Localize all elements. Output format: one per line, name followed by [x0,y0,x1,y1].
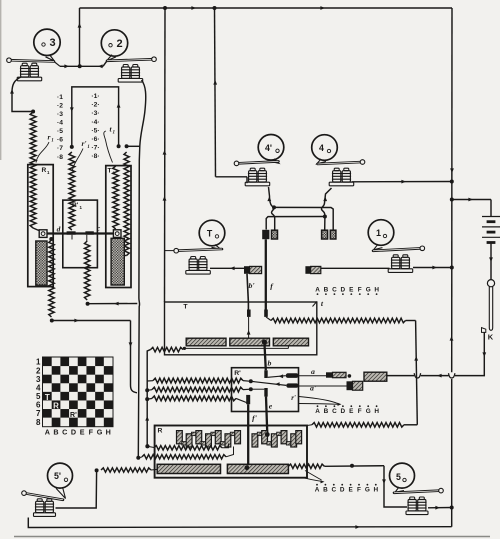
wire node B down [324,217,326,230]
node e tap [249,387,264,391]
svg-text:·3: ·3 [57,111,63,118]
wire to bell5R [382,466,407,507]
contact bar a-prime inner [286,383,298,387]
bell 1 clapper tail [374,244,383,250]
resistor to rail [151,347,184,352]
wire a-prime out [299,385,347,387]
label t1 [104,124,115,162]
label d [57,225,61,234]
labels row1 A-H [315,287,379,296]
svg-text:r': r' [291,395,296,402]
node R1 tap [31,110,35,114]
wire top bus [80,6,453,10]
wire bell1 to battery line [413,266,452,270]
resistor R1 zigzag [30,112,40,231]
svg-text:4': 4' [265,143,272,153]
svg-text:B: B [53,428,58,437]
wire coil2 down [138,80,145,458]
wire battery to switch [489,243,493,280]
wire 4 coil to battery line [352,180,452,184]
node B [323,215,327,219]
armature 5 [394,488,443,493]
svg-text:5: 5 [396,472,401,482]
svg-text:·8·: ·8· [91,153,99,160]
bell 5 clapper tail [395,487,404,492]
resistor R1-prime zigzag [69,152,75,230]
callout row3 [302,471,325,484]
contact bar f [305,266,320,274]
contact sq dark [262,230,269,239]
svg-text:·7: ·7 [57,145,63,152]
box R1-prime [63,200,98,268]
svg-text:R: R [53,402,59,411]
contact b R-prime [264,370,267,378]
label c [97,224,101,233]
callout r-prime [291,395,341,406]
box R [155,426,307,478]
svg-text:E: E [349,287,354,294]
svg-text:G: G [97,428,103,437]
svg-text:·1·: ·1· [91,93,99,100]
box T1 [106,166,131,288]
wire bell junction link [54,61,107,69]
bell 2 [101,30,127,56]
resistor long row2 [307,423,417,428]
svg-text:3: 3 [49,37,55,49]
chessboard label R [53,402,59,411]
wire battery feed [452,198,491,216]
svg-text:b: b [268,359,272,368]
resistor T1b zigzag [121,152,129,256]
svg-text:C: C [332,408,337,415]
bell 3 clapper tail [46,55,55,62]
bell 5-prime [48,463,73,488]
pivot square left [39,230,47,238]
labels row2 A-H [315,405,379,415]
box T [165,302,317,355]
bell 5-prime clapper tail [56,487,66,499]
box R-prime [232,368,299,412]
contact bar a-prime outer [347,381,363,390]
box R1 [28,165,53,287]
bell 4 [312,135,338,161]
resistor d-column zigzag [49,237,54,323]
svg-text:b': b' [248,281,255,290]
label b-prime [248,281,255,290]
svg-text:R': R' [234,370,241,377]
svg-text:8: 8 [36,418,41,427]
scale numbers 1-8 left [57,94,63,161]
coil L1 [388,255,413,273]
resistor row1 [147,378,251,383]
svg-text:G: G [365,487,370,494]
resistor comb feed 2 [136,447,233,460]
node b slider [262,339,267,344]
slider bar R1s [157,464,220,473]
wire T0 pivot link [165,250,175,252]
coil L3 [17,63,42,81]
svg-text:B: B [324,287,329,294]
coil L5 [406,497,428,515]
bell T0 [199,220,225,246]
wire 4-prime coil down [267,187,274,207]
switch arm a-prime [251,381,286,386]
armature 4 [318,160,365,165]
contact c [85,231,93,234]
contact sq 4 [330,230,336,239]
contact f inner [264,310,268,317]
svg-text:F: F [89,428,94,437]
contact bar b-prime [244,266,262,274]
svg-text:1: 1 [51,139,54,144]
svg-text:2: 2 [116,38,122,50]
wire 5 out [428,506,452,510]
label f [270,282,274,291]
resistor comb feed [145,444,228,451]
contact bar d-c [42,232,121,234]
svg-text:C: C [331,487,336,494]
rheostat comb R [177,431,302,447]
node battery taps [450,180,454,510]
coil L4-prime [245,168,270,186]
svg-text:F: F [358,287,362,294]
node v3 taps [145,388,149,448]
slider bar T1s [186,338,226,346]
label K [488,333,494,342]
wire v3 [145,350,150,447]
bell 4-prime clapper tail [270,159,279,164]
page edge bottom [14,536,490,538]
labels row3 A-H [315,484,379,494]
armature bell 3 [7,58,54,63]
svg-text:D: D [71,428,76,437]
svg-text:1: 1 [87,145,90,150]
svg-text:G: G [366,287,371,294]
label f-prime [252,414,258,423]
svg-text:D: D [340,487,345,494]
node f-prime slider [245,465,250,470]
wire scale loop [70,87,121,149]
svg-text:T: T [108,168,112,175]
svg-text:C: C [332,287,337,294]
wire f heavy [265,239,267,309]
svg-text:·2: ·2 [57,102,63,109]
bell 3 [34,29,60,55]
node e comb [265,432,270,437]
svg-text:f': f' [252,414,258,423]
wire vertical to relay 4-prime [213,8,247,183]
svg-text:·5·: ·5· [91,127,99,134]
resistor bell5R link [288,464,384,469]
svg-text:R': R' [70,412,77,419]
node A [272,205,276,209]
svg-text:F: F [358,408,362,415]
coil L5-prime [34,499,56,517]
svg-text:E: E [349,408,354,415]
wire b-prime down [247,274,248,310]
resistor row2 [147,387,251,392]
svg-text:H: H [106,428,111,437]
armature 5-prime [22,491,63,500]
wire T0 to b-prime bar [210,266,244,270]
label e [269,402,273,411]
bell 5 [390,463,415,488]
svg-text:r': r' [81,139,86,148]
svg-text:A: A [315,408,320,415]
contact bar a2 outer [364,372,387,381]
bell 2 clapper tail [107,55,117,61]
switch K [482,280,495,333]
chessboard column letters [45,428,111,437]
svg-text:T: T [45,393,50,402]
svg-text:A: A [315,487,320,494]
wire node B left [266,217,325,230]
contact bar a inner [286,373,299,378]
chessboard row numbers [36,358,41,427]
svg-text:·7·: ·7· [91,145,99,152]
slider bar T3s [273,338,308,346]
wire a out [299,375,327,377]
plunger T1 [111,238,124,285]
contact d [67,231,76,239]
wire b heavy [264,342,265,370]
svg-text:·6·: ·6· [91,136,99,143]
svg-text:B: B [323,487,328,494]
armature bell 2 [107,57,156,62]
svg-text:e: e [269,402,273,411]
chessboard label T [45,393,50,402]
svg-text:R: R [42,167,47,174]
wire e heavy [266,397,267,435]
coil L4 [329,168,354,186]
wire coil3 to R1 [10,77,33,112]
label a-prime [310,384,317,393]
svg-text:H: H [374,287,379,294]
wire node A to right square [274,207,333,229]
contact bar a outer [326,372,351,377]
svg-text:B: B [324,408,329,415]
svg-text:5': 5' [54,471,61,481]
wire main right vertical [450,8,454,527]
svg-text:H: H [373,487,378,494]
svg-text:H: H [374,408,379,415]
wire f-bar to bell 1 [321,267,390,269]
pivot square right [113,230,121,238]
slider bar T2s [230,338,270,346]
contact e [264,388,267,397]
plunger R1 [36,241,47,285]
svg-text:A: A [45,428,50,437]
svg-text:·5: ·5 [57,128,63,135]
wire f-prime heavy [247,404,249,466]
svg-text:1: 1 [113,130,116,135]
chessboard label R-prime [70,412,77,419]
svg-text:D: D [341,408,346,415]
contact sq 3 [322,230,328,239]
svg-text:E: E [348,487,353,494]
wire K to arm a [387,333,486,379]
wire bottom bus [28,518,451,529]
svg-text:A: A [315,287,320,294]
resistor T zigzag [266,317,416,323]
wire b-prime to slider [247,317,251,338]
node top-left junction [163,6,217,10]
svg-text:d: d [57,225,61,234]
svg-text:1: 1 [376,228,381,238]
bell T0 clapper tail [212,245,221,250]
armature T0 [174,248,222,253]
armature bell 1 [373,246,425,251]
svg-text:·3·: ·3· [91,110,99,117]
resistor bell5L link [95,468,158,473]
coil L2 [118,65,143,83]
svg-text:G: G [366,408,371,415]
wire vertical to box T [163,8,167,302]
wire 5-prime riser [56,470,97,508]
svg-text:·1: ·1 [57,94,63,101]
node T1 taps [125,144,140,148]
resistor c-column zigzag [85,235,90,306]
resistor T1 zigzag [113,166,119,229]
svg-text:E: E [80,428,85,437]
label t [313,299,324,308]
svg-text:C: C [62,428,67,437]
scale numbers 1-8 right [91,93,99,160]
coil T0 [186,257,211,275]
svg-text:·4·: ·4· [91,119,99,126]
label a [311,367,315,376]
wire v1 drop [129,321,137,393]
svg-text:R: R [158,428,163,435]
svg-text:D: D [341,287,346,294]
wire d-line [52,319,131,323]
contact b-prime inner [247,310,251,317]
svg-text:a: a [311,367,315,376]
svg-text:·2·: ·2· [91,102,99,109]
contact f-prime [246,395,250,404]
svg-text:·8: ·8 [57,154,63,161]
svg-text:T: T [207,229,213,239]
chessboard [42,357,114,428]
label r1-prime [73,139,90,170]
battery B [482,217,500,243]
rail under sliders [183,346,289,350]
page edge left [0,0,2,160]
bell 4 clapper tail [317,159,326,164]
switch arm a [268,374,286,378]
wire bell3 riser [78,8,82,66]
bell 4-prime [258,135,284,161]
wire 4 coil down [321,188,331,216]
svg-text:r: r [48,133,51,142]
label b [268,359,272,368]
svg-text:·4: ·4 [57,120,63,127]
bell 1 [368,220,394,246]
wire c-line [88,302,138,306]
svg-text:4: 4 [319,143,324,153]
svg-text:K: K [488,333,494,342]
svg-text:F: F [357,487,361,494]
wire t-link vertical [414,321,418,425]
slider bar R2s [227,464,288,473]
armature 4-prime [234,161,278,166]
wire node A down [272,207,275,229]
node arm a-prime [249,379,253,383]
label r1 [36,133,54,163]
contact sq 2 [272,230,278,239]
svg-text:a': a' [310,384,317,393]
svg-text:·6: ·6 [57,137,63,144]
resistor row3 [147,396,246,403]
